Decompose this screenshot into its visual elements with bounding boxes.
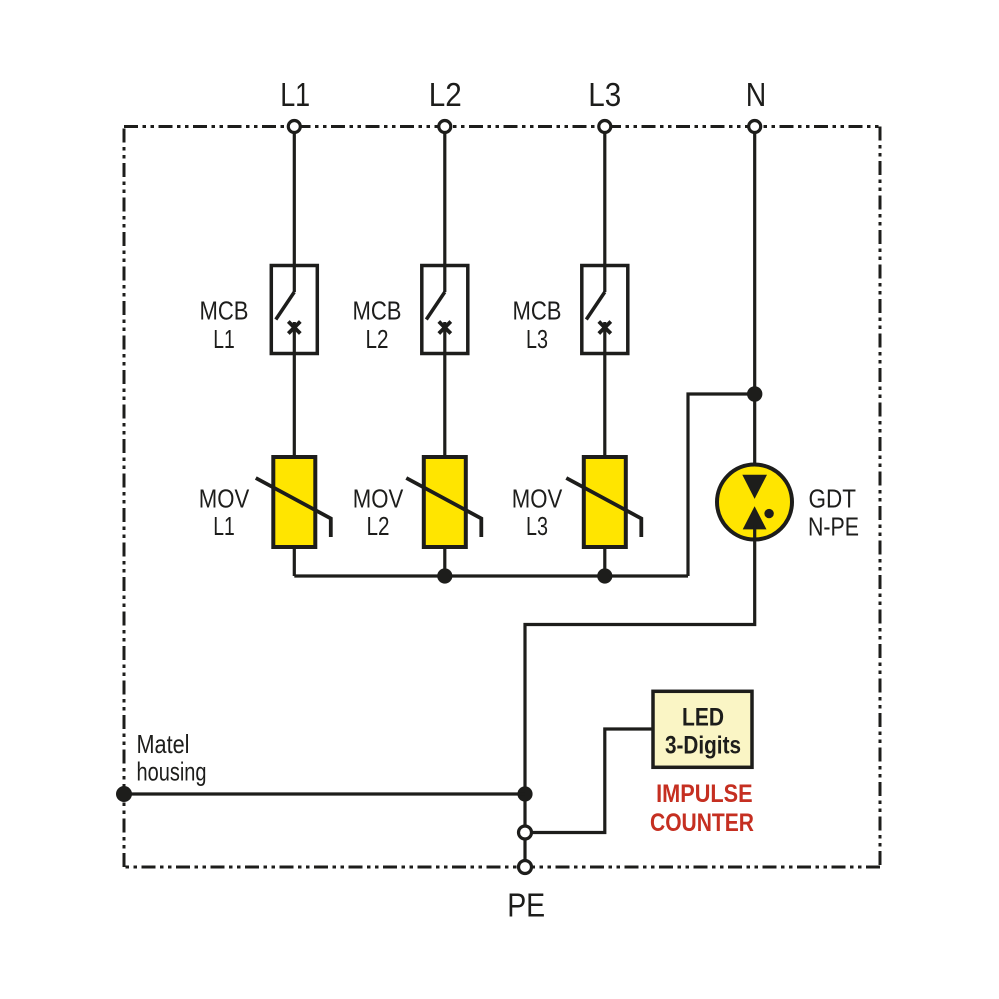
svg-text:L2: L2 bbox=[429, 76, 462, 113]
wire MOV common bus bbox=[294, 574, 688, 577]
terminal impulse counter tap bbox=[519, 826, 532, 839]
terminal PE bbox=[519, 861, 532, 874]
wire tap to PE terminal bbox=[523, 840, 526, 861]
wire bus riser to N bbox=[688, 394, 755, 576]
terminal L1 bbox=[288, 121, 300, 133]
MOV L2 (metal-oxide varistor) bbox=[406, 457, 481, 576]
svg-text:COUNTER: COUNTER bbox=[650, 809, 754, 837]
svg-text:L2: L2 bbox=[366, 324, 389, 354]
svg-text:MCB: MCB bbox=[353, 296, 402, 326]
wire metal housing to PE node bbox=[124, 792, 525, 795]
LED 3-digit display box bbox=[653, 691, 752, 767]
svg-text:MOV: MOV bbox=[353, 484, 404, 514]
wire L1 terminal to MCB L1 switch bbox=[293, 131, 296, 292]
junction housing at enclosure wall bbox=[116, 786, 132, 802]
svg-text:MCB: MCB bbox=[513, 296, 562, 326]
svg-text:3-Digits: 3-Digits bbox=[665, 732, 741, 760]
svg-text:L3: L3 bbox=[526, 511, 548, 541]
MOV L1 (metal-oxide varistor) bbox=[256, 457, 331, 576]
svg-text:MCB: MCB bbox=[200, 296, 249, 326]
enclosure dashed border (metal housing outline) bbox=[124, 127, 880, 868]
wire L3 terminal to MCB L3 switch bbox=[603, 131, 606, 292]
MOV L3 (metal-oxide varistor) bbox=[566, 457, 641, 576]
svg-text:housing: housing bbox=[137, 757, 207, 787]
svg-text:Matel: Matel bbox=[137, 729, 190, 759]
svg-text:L3: L3 bbox=[588, 76, 621, 113]
terminal L2 bbox=[439, 121, 451, 133]
svg-text:L1: L1 bbox=[213, 324, 235, 354]
svg-text:MOV: MOV bbox=[199, 484, 250, 514]
svg-text:N-PE: N-PE bbox=[808, 512, 859, 542]
svg-text:N: N bbox=[746, 76, 767, 113]
svg-text:L1: L1 bbox=[280, 76, 310, 113]
wire impulse counter to LED display bbox=[532, 729, 654, 833]
junction N node bbox=[747, 386, 762, 401]
junction MOV L2 bus bbox=[437, 568, 452, 583]
svg-text:L1: L1 bbox=[213, 511, 235, 541]
svg-text:PE: PE bbox=[507, 887, 545, 924]
svg-text:LED: LED bbox=[682, 703, 724, 731]
svg-text:IMPULSE: IMPULSE bbox=[656, 780, 753, 808]
junction MOV L3 bus bbox=[597, 568, 612, 583]
terminal L3 bbox=[599, 121, 611, 133]
junction PE / housing node bbox=[517, 786, 532, 801]
MCB L1 (miniature circuit breaker) bbox=[271, 266, 317, 458]
terminal N bbox=[749, 121, 761, 133]
GDT N-PE (gas discharge tube) bbox=[717, 465, 792, 540]
svg-text:MOV: MOV bbox=[512, 484, 563, 514]
MCB L3 (miniature circuit breaker) bbox=[582, 266, 628, 458]
svg-text:L3: L3 bbox=[526, 324, 548, 354]
wire L2 terminal to MCB L2 switch bbox=[443, 131, 446, 292]
MCB L2 (miniature circuit breaker) bbox=[422, 266, 468, 458]
wire GDT bottom to PE drop bbox=[525, 525, 755, 826]
svg-text:L2: L2 bbox=[367, 511, 390, 541]
svg-text:GDT: GDT bbox=[809, 483, 857, 513]
wire N terminal down to GDT top bbox=[753, 131, 756, 487]
